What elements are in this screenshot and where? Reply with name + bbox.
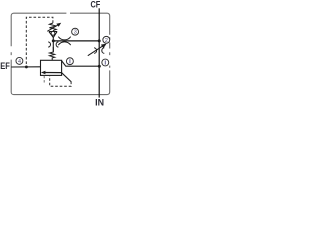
fixed orifice on vertical pilot line xyxy=(48,42,50,47)
svg-text:2: 2 xyxy=(105,38,108,44)
wire: CF/IN vertical main line xyxy=(98,8,100,97)
svg-text:3: 3 xyxy=(74,30,77,36)
svg-text:CF: CF xyxy=(91,0,101,10)
wire: diagonal from spool box to pilot loop xyxy=(62,73,72,82)
relief valve adjustable spring (zigzag with arrow) xyxy=(49,23,56,31)
envelope (valve body boundary, gray dash-dot rounded rect) xyxy=(11,13,110,94)
svg-text:4: 4 xyxy=(18,59,21,65)
svg-text:IN: IN xyxy=(95,98,104,107)
callout circle 2 (variable orifice) xyxy=(103,36,110,43)
junction node at IN line / spool line xyxy=(98,65,101,68)
wire: EF horizontal line xyxy=(11,66,40,68)
junction node at relief / pilot line xyxy=(52,39,55,42)
wire: horizontal pilot line from relief junction to CF line xyxy=(53,40,99,42)
pilot loop dashed under spool box xyxy=(50,75,71,86)
callout circle 1 (spool) xyxy=(66,58,73,65)
callout circle 1b (inlet line) xyxy=(102,59,109,66)
spring on top of spool box xyxy=(50,47,55,60)
relief valve drain dashed line to EF xyxy=(26,17,53,66)
wire: from spool box corner down-right then horizontal to IN junction xyxy=(61,61,99,67)
faint drain stub under box xyxy=(43,76,45,84)
junction node at EF / drain line xyxy=(25,65,28,68)
svg-text:EF: EF xyxy=(0,60,10,71)
fixed orifice on horizontal pilot line xyxy=(58,37,70,40)
callout circle 3 (fixed orifice) xyxy=(72,28,79,35)
variable orifice (adjustable throttle) on CF line xyxy=(94,48,96,54)
wire: relief/orifice vertical line xyxy=(52,37,54,52)
spool box (priority compensator) xyxy=(41,60,62,75)
relief valve seat and ball xyxy=(49,32,57,38)
junction node at CF line / pilot line xyxy=(98,39,101,42)
spool flow arrow inside box xyxy=(44,72,62,74)
callout circle 4 (relief drain) xyxy=(16,57,23,64)
